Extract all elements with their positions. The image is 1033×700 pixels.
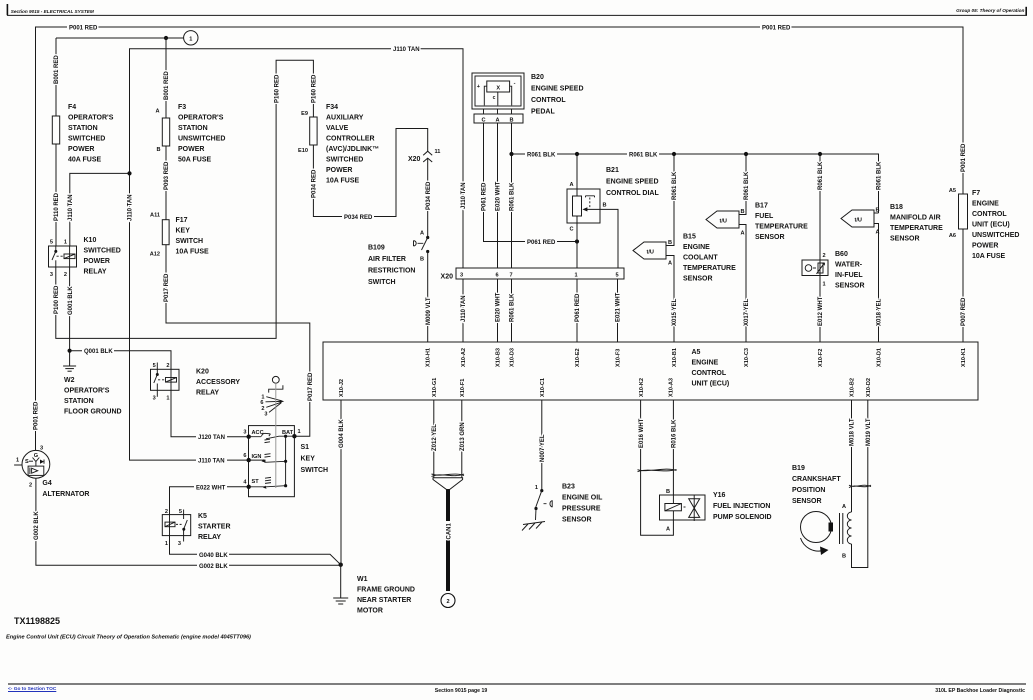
- S1 key fan: [280, 400, 285, 403]
- svg-text:UNSWITCHED: UNSWITCHED: [178, 136, 225, 143]
- solenoid Y16 box: [660, 495, 706, 520]
- svg-text:R016 BLK: R016 BLK: [672, 419, 678, 448]
- wire P034 RED X20-11 to B109: [427, 158, 429, 237]
- wire label P001 RED right: [760, 23, 791, 31]
- S1 contact ticks IGN: [265, 454, 271, 457]
- svg-text:J110 TAN: J110 TAN: [461, 182, 467, 209]
- svg-text:50A FUSE: 50A FUSE: [178, 157, 212, 164]
- node 2 off-page connector: [441, 594, 455, 608]
- svg-text:B: B: [420, 257, 424, 263]
- svg-text:G002 BLK: G002 BLK: [199, 564, 228, 570]
- svg-text:F17: F17: [176, 217, 188, 224]
- svg-text:ENGINE SPEED: ENGINE SPEED: [606, 179, 659, 186]
- dial B21 wire A: [576, 154, 578, 196]
- svg-text:1: 1: [535, 485, 538, 491]
- svg-text:310L EP Backhoe Loader Diagnos: 310L EP Backhoe Loader Diagnostic: [935, 688, 1025, 694]
- alternator G4 Y winding: [33, 458, 40, 467]
- wire P061 RED X20 to ECU: [576, 279, 578, 342]
- relay K5 link (dashed): [176, 523, 182, 525]
- svg-text:B: B: [156, 147, 160, 153]
- svg-text:X10-F1: X10-F1: [460, 379, 466, 397]
- svg-text:F7: F7: [972, 190, 980, 197]
- svg-text:RELAY: RELAY: [198, 534, 221, 541]
- wire Q001 BLK to K20: [70, 351, 171, 370]
- svg-text:CONTROL DIAL: CONTROL DIAL: [606, 190, 659, 197]
- svg-text:B: B: [876, 208, 880, 214]
- wire J110 TAN to S1 IGN: [196, 456, 227, 464]
- svg-text:VALVE: VALVE: [326, 125, 349, 132]
- svg-text:NEAR STARTER: NEAR STARTER: [357, 597, 411, 604]
- svg-text:W2: W2: [64, 377, 75, 384]
- wire P007 RED F7 to ECU: [962, 229, 964, 342]
- svg-text:X10-D3: X10-D3: [510, 348, 516, 367]
- footer rule: [8, 683, 1026, 685]
- svg-text:TEMPERATURE: TEMPERATURE: [683, 265, 736, 272]
- header left bar: [7, 4, 9, 15]
- svg-text:Y16: Y16: [713, 492, 726, 499]
- svg-text:X10-H1: X10-H1: [426, 348, 432, 367]
- sensor B19 core: [839, 513, 841, 544]
- wire P001 RED main rail: [36, 27, 964, 450]
- wire Z012 YEL ECU down: [433, 400, 435, 478]
- relay K20 link (dashed): [158, 379, 166, 381]
- svg-text:1: 1: [166, 396, 169, 402]
- svg-text:M019 VLT: M019 VLT: [866, 418, 872, 446]
- svg-text:UNIT (ECU): UNIT (ECU): [692, 381, 730, 388]
- wire M018 VLT ECU to B19: [851, 400, 853, 512]
- wire P017 RED F17 to S1 BAT: [166, 245, 310, 437]
- svg-text:SENSOR: SENSOR: [683, 276, 713, 283]
- wire J110 TAN branch to K10 pin1: [70, 173, 130, 246]
- wire G004 BLK ECU to W1: [340, 400, 342, 565]
- wire R061 BLK pedal B to X20-7: [511, 123, 513, 268]
- alternator G4 pin 1 stub: [14, 464, 22, 466]
- svg-text:IGN: IGN: [252, 454, 262, 460]
- relay K5 pin3 stub: [183, 530, 185, 542]
- svg-text:FUEL INJECTION: FUEL INJECTION: [713, 503, 770, 510]
- svg-text:F34: F34: [326, 104, 338, 111]
- svg-text:COOLANT: COOLANT: [683, 255, 718, 262]
- svg-text:A: A: [741, 231, 745, 237]
- sensor B60 body: [802, 260, 828, 276]
- ECU A5 box: [323, 342, 978, 400]
- svg-text:5: 5: [616, 273, 619, 279]
- svg-text:STATION: STATION: [178, 125, 208, 132]
- svg-text:X10-E2: X10-E2: [575, 348, 581, 367]
- svg-text:A: A: [495, 118, 499, 124]
- svg-text:STARTER: STARTER: [198, 524, 231, 531]
- wire Z013 GRN ECU down: [461, 400, 463, 478]
- svg-text:J110 TAN: J110 TAN: [68, 194, 74, 221]
- solenoid Y16 coil: [665, 504, 682, 511]
- svg-text:CRANKSHAFT: CRANKSHAFT: [792, 476, 841, 483]
- svg-text:SENSOR: SENSOR: [755, 234, 785, 241]
- switch B23 pressure actuator: [544, 500, 553, 507]
- wire E020 WHT pedal A to X20-6: [497, 123, 499, 268]
- svg-text:P034 RED: P034 RED: [312, 169, 318, 198]
- svg-text:WATER-: WATER-: [835, 262, 863, 269]
- svg-text:K20: K20: [196, 369, 209, 376]
- svg-text:Z013 GRN: Z013 GRN: [460, 422, 466, 451]
- svg-text:Q001 BLK: Q001 BLK: [84, 349, 113, 355]
- svg-text:10A FUSE: 10A FUSE: [326, 178, 360, 185]
- svg-text:BAT: BAT: [282, 430, 294, 436]
- svg-text:J110 TAN: J110 TAN: [198, 459, 225, 465]
- sensor B60 wire pin2: [819, 154, 821, 342]
- wire R061 BLK X20 to ECU: [511, 279, 513, 342]
- wire P061 RED pedal C to dial C: [484, 123, 578, 242]
- svg-text:B: B: [666, 489, 670, 495]
- svg-text:1: 1: [823, 282, 826, 288]
- svg-text:UNSWITCHED: UNSWITCHED: [972, 232, 1019, 239]
- fuse F4: [52, 116, 59, 144]
- S1 internal bus: [285, 436, 287, 486]
- svg-text:SENSOR: SENSOR: [792, 498, 822, 505]
- svg-text:W1: W1: [357, 576, 368, 583]
- svg-text:RESTRICTION: RESTRICTION: [368, 268, 415, 275]
- svg-text:OPERATOR'S: OPERATOR'S: [64, 388, 110, 395]
- wire G001 BLK K10 to ground: [69, 267, 71, 366]
- twisted pair marker B19: [849, 485, 871, 487]
- svg-text:5: 5: [179, 509, 182, 515]
- svg-text:E020 WHT: E020 WHT: [496, 292, 502, 322]
- svg-text:X10-D2: X10-D2: [866, 378, 872, 397]
- alternator G4 regulator: [28, 466, 44, 475]
- svg-text:2: 2: [446, 599, 449, 605]
- wire R016 BLK ECU to Y16: [672, 400, 674, 495]
- wire J110 TAN top rail: [130, 49, 464, 460]
- svg-text:X10-K2: X10-K2: [639, 378, 645, 397]
- svg-text:3: 3: [153, 396, 156, 402]
- svg-text:R061 BLK: R061 BLK: [510, 293, 516, 322]
- svg-text:RELAY: RELAY: [196, 390, 219, 397]
- svg-text:1: 1: [189, 36, 192, 42]
- svg-text:Section 9015 page 19: Section 9015 page 19: [435, 688, 488, 694]
- svg-text:3: 3: [178, 541, 181, 547]
- svg-text:POWER: POWER: [178, 146, 204, 153]
- svg-text:Group 05: Theory of Operation: Group 05: Theory of Operation: [956, 8, 1024, 13]
- key switch S1: [249, 426, 295, 497]
- svg-text:X20: X20: [408, 156, 421, 163]
- S1 ST blade: [249, 486, 286, 487]
- svg-text:P034 RED: P034 RED: [426, 181, 432, 210]
- svg-text:ALTERNATOR: ALTERNATOR: [42, 491, 89, 498]
- svg-text:A: A: [569, 182, 573, 188]
- svg-text:B001 RED: B001 RED: [164, 71, 170, 100]
- wire B001 RED to F4: [55, 38, 57, 116]
- svg-text:SENSOR: SENSOR: [890, 236, 920, 243]
- svg-text:10A FUSE: 10A FUSE: [176, 249, 210, 256]
- svg-text:+: +: [477, 84, 481, 90]
- relay K10 link (dashed): [57, 255, 65, 257]
- svg-text:11: 11: [435, 149, 441, 155]
- svg-text:X015 YEL: X015 YEL: [672, 298, 678, 326]
- svg-text:SWITCH: SWITCH: [301, 467, 329, 474]
- svg-text:X10-B1: X10-B1: [672, 348, 678, 367]
- svg-text:X10-F3: X10-F3: [616, 349, 622, 367]
- svg-text:(AVC)/JDLINK™: (AVC)/JDLINK™: [326, 146, 379, 153]
- svg-text:FLOOR GROUND: FLOOR GROUND: [64, 409, 122, 416]
- svg-text:3: 3: [264, 412, 267, 418]
- svg-text:t/U: t/U: [855, 218, 862, 224]
- S1 key symbol: [272, 376, 279, 383]
- svg-text:40A FUSE: 40A FUSE: [68, 157, 102, 164]
- relay K20 pin3 stub: [156, 390, 158, 397]
- svg-text:t/U: t/U: [720, 219, 727, 225]
- svg-text:IN-FUEL: IN-FUEL: [835, 272, 863, 279]
- svg-text:MANIFOLD AIR: MANIFOLD AIR: [890, 215, 941, 222]
- wire label P001 RED left: [67, 23, 98, 31]
- svg-text:3: 3: [460, 273, 463, 279]
- relay K20: [151, 369, 180, 390]
- svg-text:SWITCHED: SWITCHED: [84, 248, 121, 255]
- svg-text:ACCESSORY: ACCESSORY: [196, 379, 240, 386]
- relay K5: [162, 515, 190, 536]
- svg-text:ENGINE: ENGINE: [683, 244, 710, 251]
- relay K20 switch: [156, 369, 158, 374]
- svg-text:P110 RED: P110 RED: [54, 192, 60, 221]
- svg-text:CONTROL: CONTROL: [972, 211, 1007, 218]
- svg-text:P100 RED: P100 RED: [54, 285, 60, 314]
- svg-text:Z012 YEL: Z012 YEL: [432, 424, 438, 451]
- svg-text:2: 2: [64, 272, 67, 278]
- svg-text:3: 3: [243, 430, 246, 436]
- junction J110 TAN branch: [127, 171, 131, 175]
- svg-text:FUEL: FUEL: [755, 213, 774, 220]
- connector X20 strip: [456, 268, 624, 279]
- header rule: [7, 14, 1027, 16]
- alternator G4: [22, 450, 50, 478]
- wire B001 RED to F3: [165, 38, 167, 118]
- svg-text:P001 RED: P001 RED: [34, 401, 40, 430]
- svg-text:2: 2: [823, 253, 826, 259]
- svg-text:E9: E9: [301, 111, 308, 117]
- svg-text:M009 VLT: M009 VLT: [426, 297, 432, 325]
- svg-text:P160 RED: P160 RED: [312, 74, 318, 103]
- switch B109 actuator: [414, 241, 424, 246]
- svg-text:CONTROL: CONTROL: [531, 97, 566, 104]
- svg-text:X10-C1: X10-C1: [540, 378, 546, 397]
- svg-text:E021 WHT: E021 WHT: [616, 292, 622, 322]
- svg-text:R061 BLK: R061 BLK: [744, 171, 750, 200]
- wire E016 WHT ECU to Y16: [641, 400, 674, 535]
- svg-text:A5: A5: [692, 349, 701, 356]
- svg-text:POSITION: POSITION: [792, 487, 825, 494]
- svg-text:P017 RED: P017 RED: [308, 372, 314, 401]
- svg-text:ENGINE: ENGINE: [972, 201, 999, 208]
- svg-text:B: B: [842, 554, 846, 560]
- svg-text:X10-J2: X10-J2: [339, 379, 345, 397]
- solenoid Y16 injector: [689, 499, 700, 518]
- svg-text:1: 1: [298, 429, 301, 435]
- svg-text:OPERATOR'S: OPERATOR'S: [178, 115, 224, 122]
- svg-text:AIR FILTER: AIR FILTER: [368, 256, 406, 263]
- svg-text:R061 BLK: R061 BLK: [672, 171, 678, 200]
- pedal B20 connector strip: [474, 114, 523, 123]
- sensor B19 magnet wheel: [801, 512, 832, 543]
- CAN twisted pair marker: [432, 474, 465, 477]
- svg-text:3: 3: [50, 272, 53, 278]
- pedal B20 outer box: [472, 73, 524, 109]
- svg-text:SENSOR: SENSOR: [835, 283, 865, 290]
- svg-text:B18: B18: [890, 204, 903, 211]
- svg-text:P001 RED: P001 RED: [762, 26, 791, 32]
- svg-text:SWITCH: SWITCH: [176, 238, 204, 245]
- wire to node 1: [56, 37, 184, 39]
- svg-text:t/U: t/U: [647, 250, 654, 256]
- svg-text:P160 RED: P160 RED: [274, 74, 280, 103]
- svg-text:Section 9015 - ELECTRICAL SYST: Section 9015 - ELECTRICAL SYSTEM: [11, 9, 94, 14]
- svg-text:G002 BLK: G002 BLK: [34, 511, 40, 540]
- svg-text:SWITCH: SWITCH: [368, 279, 396, 286]
- S1 contact ticks ACC: [265, 439, 271, 442]
- svg-text:SWITCHED: SWITCHED: [68, 136, 105, 143]
- svg-text:TEMPERATURE: TEMPERATURE: [755, 224, 808, 231]
- svg-text:J110 TAN: J110 TAN: [461, 295, 467, 322]
- wire N007 YEL ECU to B23: [541, 400, 543, 491]
- svg-text:1: 1: [16, 458, 19, 464]
- CAN1 cable: [446, 490, 450, 522]
- svg-text:ENGINE OIL: ENGINE OIL: [562, 495, 603, 502]
- svg-text:MOTOR: MOTOR: [357, 608, 383, 615]
- wire P034 RED F34 to X20-11: [313, 129, 427, 217]
- relay K10: [49, 246, 77, 267]
- wire E021 WHT X20 to ECU: [617, 279, 619, 342]
- CAN funnel: [433, 478, 463, 490]
- relay K20 pin5 stub: [156, 363, 158, 370]
- svg-text:RELAY: RELAY: [84, 269, 107, 276]
- svg-text:X10-D1: X10-D1: [877, 348, 883, 367]
- svg-text:B60: B60: [835, 251, 848, 258]
- svg-text:POWER: POWER: [326, 167, 352, 174]
- fuse F3: [162, 118, 169, 146]
- bus R061 BLK: [512, 154, 879, 213]
- wire J110 TAN X20 to ECU: [462, 279, 464, 342]
- svg-text:E016 WHT: E016 WHT: [639, 418, 645, 448]
- twisted pair marker Y16: [638, 469, 677, 472]
- svg-text:R061 BLK: R061 BLK: [877, 161, 883, 190]
- S1 IGN blade: [249, 460, 286, 462]
- wire G002 BLK G4 to W1: [36, 478, 341, 565]
- svg-text:X10-A2: X10-A2: [461, 348, 467, 367]
- wire P100 RED / P160 RED K10 to F34: [56, 60, 314, 338]
- sensor B17 wire B: [739, 154, 746, 215]
- solenoid Y16 link dash: [684, 506, 688, 508]
- svg-text:X10-C3: X10-C3: [744, 348, 750, 367]
- svg-text:G4: G4: [42, 480, 51, 487]
- svg-text:CAN1: CAN1: [446, 523, 452, 540]
- svg-text:B: B: [509, 118, 513, 124]
- svg-text:4: 4: [243, 480, 247, 486]
- connector X20 pin 11 chevrons: [423, 151, 432, 162]
- relay K5 switch: [184, 520, 187, 528]
- svg-text:B15: B15: [683, 234, 696, 241]
- alternator G4 diode: [40, 460, 44, 464]
- svg-text:X10-K1: X10-K1: [961, 348, 967, 367]
- wire J120 TAN K20 to S1 ACC: [171, 390, 249, 436]
- svg-text:S: S: [25, 459, 29, 465]
- wire P003 RED F3 to F17: [165, 146, 167, 220]
- svg-text:E022 WHT: E022 WHT: [196, 485, 226, 491]
- CAN1 label: [444, 525, 452, 540]
- svg-text:E012 WHT: E012 WHT: [818, 296, 824, 326]
- wire label J110 TAN top: [391, 45, 420, 53]
- svg-text:A: A: [876, 230, 880, 236]
- relay K5 pin5 stub: [183, 510, 185, 520]
- svg-text:M018 VLT: M018 VLT: [850, 418, 856, 446]
- svg-text:-: -: [514, 81, 516, 87]
- svg-text:B20: B20: [531, 74, 544, 81]
- svg-text:ENGINE: ENGINE: [692, 360, 719, 367]
- sensor B15 wire B: [666, 154, 674, 246]
- svg-text:FRAME GROUND: FRAME GROUND: [357, 587, 415, 594]
- sensor B18 wire B: [874, 212, 879, 214]
- S1 mechanical link (grey): [275, 383, 277, 488]
- svg-text:G004 BLK: G004 BLK: [339, 419, 345, 448]
- svg-text:A: A: [666, 527, 670, 533]
- svg-text:TEMPERATURE: TEMPERATURE: [890, 225, 943, 232]
- svg-text:X10-B3: X10-B3: [496, 348, 502, 367]
- fuse F7: [959, 194, 968, 229]
- svg-text:PEDAL: PEDAL: [531, 109, 555, 116]
- svg-text:2: 2: [165, 509, 168, 515]
- svg-text:R061 BLK: R061 BLK: [818, 161, 824, 190]
- svg-text:3: 3: [40, 446, 43, 452]
- wire M009 VLT B109 to ECU: [427, 252, 429, 343]
- svg-text:STATION: STATION: [68, 125, 98, 132]
- sensor B15 body: [633, 242, 666, 259]
- svg-text:UNIT (ECU): UNIT (ECU): [972, 222, 1010, 229]
- svg-text:S1: S1: [301, 444, 310, 451]
- dial B21 wire C: [576, 216, 578, 268]
- header right bar: [1025, 7, 1027, 15]
- svg-text:A: A: [420, 231, 424, 237]
- svg-text:C: C: [481, 118, 485, 124]
- svg-text:POWER: POWER: [68, 146, 94, 153]
- svg-text:F3: F3: [178, 104, 186, 111]
- svg-text:A: A: [668, 261, 672, 267]
- svg-text:B: B: [603, 203, 607, 209]
- svg-text:E020 WHT: E020 WHT: [496, 181, 502, 211]
- svg-text:J120 TAN: J120 TAN: [198, 435, 225, 441]
- svg-text:SENSOR: SENSOR: [562, 517, 592, 524]
- sensor B19 rotation arrow: [801, 538, 824, 551]
- relay K10 switch: [55, 246, 57, 251]
- svg-text:R061 BLK: R061 BLK: [629, 153, 658, 159]
- svg-text:P061 RED: P061 RED: [575, 293, 581, 322]
- S1 ACC-BAT row: [249, 433, 295, 439]
- svg-text:P001 RED: P001 RED: [961, 143, 967, 172]
- dial B21 box: [567, 189, 600, 223]
- svg-text:G: G: [34, 453, 38, 459]
- wire G040 BLK K5 to W1: [170, 536, 341, 565]
- svg-text:B19: B19: [792, 465, 805, 472]
- svg-text:5: 5: [153, 363, 156, 369]
- svg-text:PRESSURE: PRESSURE: [562, 506, 601, 513]
- ground W2: [63, 365, 76, 367]
- svg-text:P017 RED: P017 RED: [164, 273, 170, 302]
- svg-text:G001 BLK: G001 BLK: [68, 286, 74, 315]
- svg-text:7: 7: [510, 273, 513, 279]
- svg-text:ST: ST: [252, 479, 260, 485]
- svg-text:A6: A6: [949, 233, 956, 239]
- svg-text:R061 BLK: R061 BLK: [527, 153, 556, 159]
- svg-text:X10-B2: X10-B2: [850, 378, 856, 397]
- svg-text:G040 BLK: G040 BLK: [199, 553, 228, 559]
- svg-text:B: B: [741, 209, 745, 215]
- svg-text:X10-A3: X10-A3: [669, 378, 675, 397]
- svg-text:1: 1: [575, 273, 578, 279]
